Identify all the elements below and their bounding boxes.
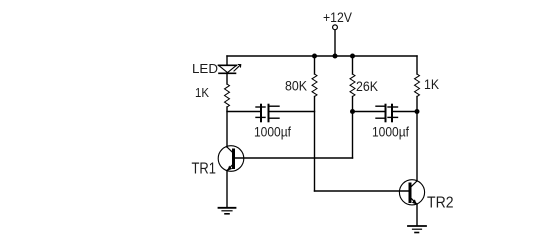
junction at rail and 80K (312, 54, 317, 59)
wire: TR1 base line (235, 157, 353, 159)
junction at rail and +12V feed (333, 54, 338, 59)
capacitor C1 (1000uf) (256, 105, 279, 122)
resistor 1K (right, TR2 collector load) (415, 74, 420, 97)
wire: 1K right bottom to junction (416, 97, 418, 112)
junction at 26K bottom / C2 / TR1 base net (350, 109, 355, 114)
wire: R1 to TR1 collector node (226, 107, 228, 147)
resistor 1K (left, LED series) (225, 84, 230, 107)
transistor TR2 (399, 180, 424, 205)
svg-text:26K: 26K (356, 79, 378, 94)
svg-text:TR1: TR1 (192, 161, 217, 178)
wire: rail to 26K top (352, 56, 354, 74)
wire: rail to 80K top (314, 56, 316, 74)
svg-text:+12V: +12V (323, 9, 353, 25)
ground (TR2 emitter) (408, 226, 426, 233)
wire: LED cathode to R1 (226, 73, 228, 84)
LED (219, 65, 241, 74)
wire: 26K bottom to junction (352, 97, 354, 112)
svg-text:80K: 80K (285, 79, 307, 94)
+12V terminal (333, 25, 338, 30)
wire: junction down to TR1 base line (352, 112, 354, 159)
wire: TR2 emitter to ground (416, 204, 418, 226)
capacitor C2 (1000uf) (376, 105, 398, 122)
wire: C2 right plate to TR2 collector net (392, 111, 417, 113)
resistor 26K (350, 74, 355, 97)
wire: 26K junction to C2 left plate (353, 111, 386, 113)
svg-text:1K: 1K (195, 86, 210, 100)
transistor TR1 (218, 146, 244, 172)
svg-text:1000µf: 1000µf (254, 124, 291, 140)
svg-text:TR2: TR2 (427, 195, 454, 212)
wire: rail right corner down to 1K right (416, 56, 418, 74)
wire: TR1 collector node to C1 left plate (227, 111, 260, 113)
wire: corner to TR2 base (315, 190, 409, 192)
wire: C1 right plate to 80K bottom net (269, 111, 315, 113)
ground (TR1 emitter) (219, 208, 236, 214)
resistor 80K (312, 74, 317, 97)
wire: rail down to LED anode (226, 56, 228, 65)
svg-text:LED: LED (192, 62, 218, 76)
wire: 80K bottom down to TR2 base corner (314, 97, 316, 192)
junction at rail and 26K (350, 54, 355, 59)
svg-text:1K: 1K (424, 77, 439, 92)
wire: top supply rail (227, 55, 417, 57)
junction at C2 / 1K right / TR2 collector (415, 109, 420, 114)
svg-text:1000µf: 1000µf (372, 124, 409, 140)
wire: TR1 emitter to ground (226, 171, 228, 208)
wire: junction down to TR2 collector (416, 112, 418, 182)
wire: +12V terminal to top rail (334, 31, 336, 57)
